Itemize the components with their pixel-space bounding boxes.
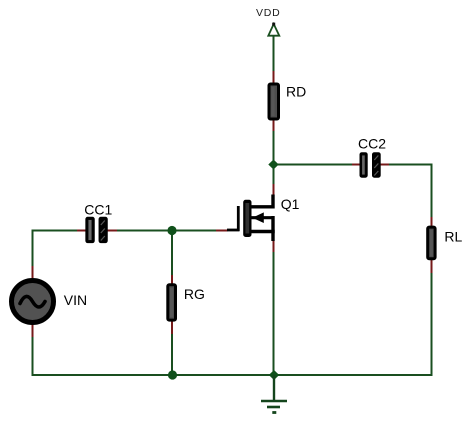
svg-text:CC2: CC2 — [358, 136, 386, 152]
svg-text:Q1: Q1 — [281, 196, 300, 212]
svg-text:RD: RD — [286, 84, 306, 100]
svg-text:VDD: VDD — [256, 7, 281, 19]
svg-text:CC1: CC1 — [84, 201, 112, 217]
svg-text:VIN: VIN — [64, 292, 87, 308]
svg-text:RG: RG — [184, 286, 205, 302]
svg-text:RL: RL — [444, 229, 462, 245]
